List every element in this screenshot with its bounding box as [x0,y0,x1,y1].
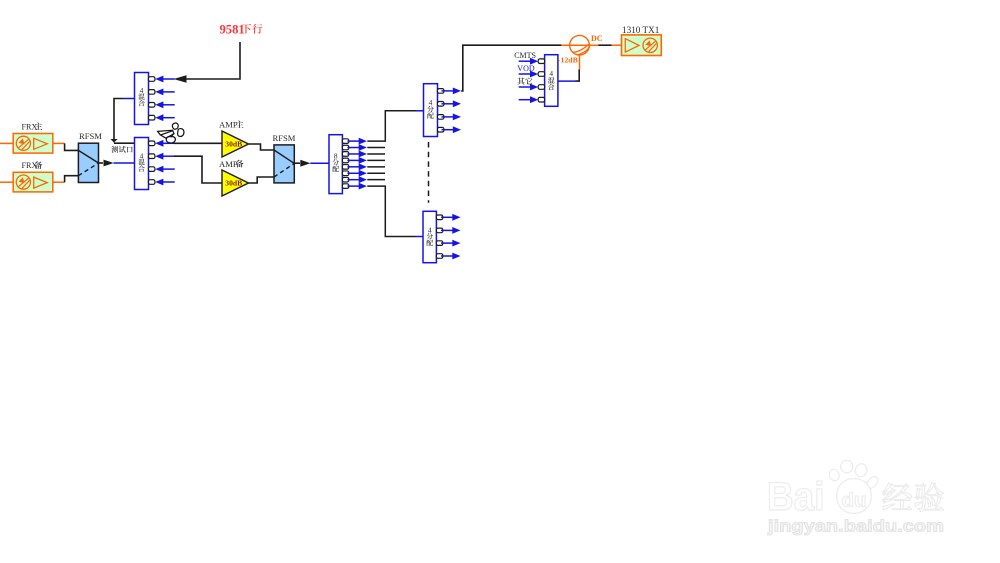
combiner U1 4混合 [135,73,149,125]
amplifier A2 AMP备 30dB [219,159,249,196]
ports U2 [149,141,155,184]
node 测试口 (test port) [111,146,132,153]
ports SP2 [438,89,444,132]
svg-text:RFSM: RFSM [273,133,296,143]
label 其它 [517,78,532,85]
wire U3 output to DC tap [558,69,579,81]
wire 9581 feed [174,42,241,83]
ports U3 (left side) [538,59,544,102]
svg-text:VOD: VOD [517,64,535,73]
RF switch K2 RFSM [273,133,296,183]
wire SP2 port1 to DC coupler [461,45,561,91]
watermark baidu jingyan [767,460,944,535]
ports U1 [149,77,155,120]
wire A2 output to K2 [249,177,275,183]
wire FRX主 to RFSM K1 [0,143,78,150]
wire K1 output to U2 [99,160,135,167]
wire A1 output to K2 [249,144,275,150]
splitter SP3 4分配 [423,211,436,262]
wire SP1 outputs [367,111,415,237]
splitter SP2 4分配 [424,84,438,137]
wire U1 output [111,99,135,144]
RF switch K1 RFSM [78,131,102,182]
svg-text:4: 4 [549,69,553,78]
optical receiver FRX主 [13,122,53,153]
svg-text:AMP: AMP [219,120,238,130]
svg-text:RFSM: RFSM [79,131,102,141]
svg-text:CMTS: CMTS [514,51,536,60]
svg-text:FRX: FRX [22,161,38,170]
optical transmitter 1310 TX1 [622,25,662,56]
input arrows U3 [519,58,539,103]
svg-text:FRX: FRX [22,122,38,131]
output arrows SP1 [347,138,367,190]
svg-text:30dB: 30dB [225,179,242,188]
svg-text:8: 8 [334,152,338,161]
svg-text:du: du [842,491,867,512]
splitter SP1 8分配 [329,135,342,194]
wire DC to TX1 [598,44,621,46]
svg-text:9581: 9581 [220,23,245,37]
input arrows U2 [155,140,175,186]
node 9581下行 (downstream feed label) [220,23,263,37]
combiner U3 4混合 [545,55,558,107]
svg-text:Bai: Bai [767,475,825,519]
output arrows SP3 [441,214,461,259]
ports SP1 [342,139,348,189]
directional coupler DC [561,35,598,69]
svg-text:1310 TX1: 1310 TX1 [622,25,660,35]
svg-text:4: 4 [428,225,432,234]
combiner U2 4混合 [135,138,149,190]
svg-text:30dB: 30dB [225,140,242,149]
amplifier A1 AMP主 30dB [219,120,249,157]
wire FRX备 to RFSM K1 [0,176,78,183]
optical receiver FRX备 [13,161,53,192]
input arrows U1 [155,76,175,122]
svg-text:jingyan.baidu.com: jingyan.baidu.com [767,518,944,536]
annotation doodle [158,123,184,143]
wire K2 output to SP1 [294,160,329,167]
ports SP3 [436,215,442,258]
dashed continuation line [428,142,430,203]
svg-text:AMP: AMP [219,159,238,169]
wire U2 port1 / AMP主 input [174,142,222,144]
svg-text:4: 4 [140,151,144,160]
output arrows SP2 [442,88,462,134]
svg-text:-12dB: -12dB [558,56,578,65]
wire U2 port2 / AMP备 input [174,156,222,183]
svg-text:DC: DC [591,34,603,43]
svg-text:4: 4 [429,98,433,107]
